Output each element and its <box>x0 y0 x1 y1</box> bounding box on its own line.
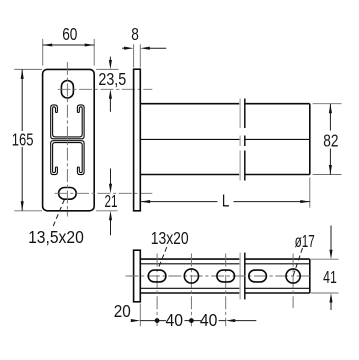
svg-text:ø17: ø17 <box>295 231 315 251</box>
svg-text:L: L <box>222 191 230 211</box>
svg-text:8: 8 <box>131 24 139 44</box>
svg-text:60: 60 <box>62 24 77 44</box>
svg-text:13,5x20: 13,5x20 <box>28 227 84 247</box>
svg-text:40: 40 <box>200 310 218 330</box>
svg-text:23,5: 23,5 <box>98 69 126 89</box>
svg-text:21: 21 <box>105 191 118 211</box>
svg-text:82: 82 <box>323 130 338 150</box>
svg-text:165: 165 <box>12 129 34 149</box>
svg-text:40: 40 <box>166 310 184 330</box>
svg-text:20: 20 <box>114 301 131 321</box>
svg-text:41: 41 <box>323 267 337 287</box>
svg-text:13x20: 13x20 <box>151 228 189 248</box>
